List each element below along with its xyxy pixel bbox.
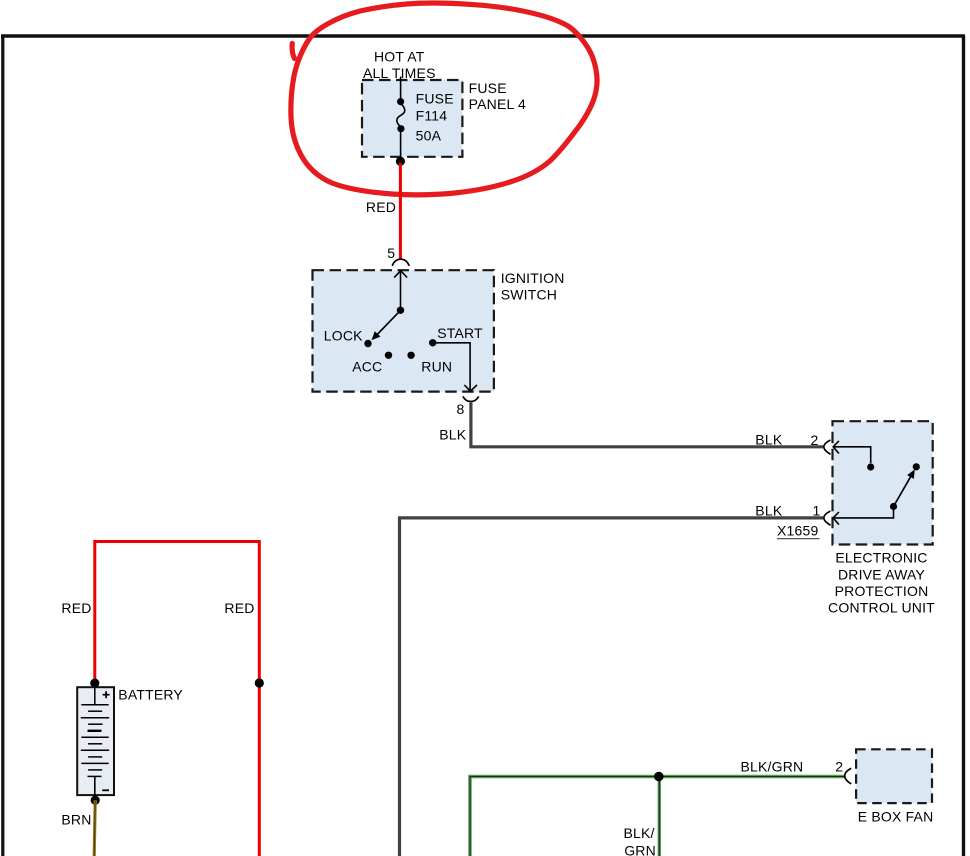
label FUSE PANEL 4 bbox=[469, 80, 526, 112]
LOCK contact dot bbox=[364, 340, 371, 347]
battery plus sign bbox=[103, 691, 110, 698]
wire BLK from lower-left down-run to control unit pin 1 bbox=[400, 518, 824, 856]
svg-text:SWITCH: SWITCH bbox=[501, 286, 557, 302]
junction dot at fuse box bottom bbox=[396, 157, 405, 166]
svg-text:PANEL 4: PANEL 4 bbox=[469, 96, 526, 112]
svg-text:ALL TIMES: ALL TIMES bbox=[363, 65, 436, 81]
control unit pin 1 internal line with left arrow bbox=[833, 510, 894, 525]
svg-text:START: START bbox=[437, 325, 483, 341]
page border frame right line bbox=[962, 36, 965, 856]
pin 1 label (control unit) bbox=[813, 503, 821, 519]
pin 2 connector arc bbox=[824, 440, 831, 454]
svg-text:DRIVE AWAY: DRIVE AWAY bbox=[838, 566, 926, 582]
pin 8 connector arc bbox=[463, 396, 479, 401]
wire BRN from battery negative bbox=[94, 800, 95, 856]
battery box bbox=[77, 687, 114, 795]
ACC contact dot bbox=[385, 352, 392, 359]
label BLK (pin 8 wire) bbox=[439, 426, 467, 442]
svg-text:ELECTRONIC: ELECTRONIC bbox=[835, 550, 927, 566]
svg-text:5: 5 bbox=[387, 245, 395, 261]
battery top terminal dot bbox=[90, 679, 99, 688]
fuse element S-curve bbox=[397, 104, 405, 128]
svg-text:BLK: BLK bbox=[755, 431, 783, 447]
svg-text:50A: 50A bbox=[416, 127, 442, 143]
svg-text:2: 2 bbox=[835, 758, 843, 774]
svg-text:FUSE: FUSE bbox=[416, 91, 454, 107]
label ELECTRONIC DRIVE AWAY PROTECTION CONTROL UNIT bbox=[828, 550, 935, 616]
label RUN bbox=[421, 358, 452, 374]
RUN contact dot bbox=[407, 352, 414, 359]
svg-text:BATTERY: BATTERY bbox=[118, 687, 183, 703]
junction dot on right red wire bbox=[255, 678, 264, 687]
svg-text:2: 2 bbox=[811, 432, 819, 448]
pin 5 label bbox=[387, 245, 395, 261]
label E BOX FAN bbox=[858, 809, 934, 825]
label X1659 underlined bbox=[777, 522, 818, 538]
pin 2 label (e box fan) bbox=[835, 758, 843, 774]
ignition switch dashed box bbox=[313, 270, 494, 391]
svg-text:BLK/: BLK/ bbox=[624, 825, 655, 841]
ignition switch pivot dot bbox=[397, 307, 404, 314]
svg-text:BLK: BLK bbox=[755, 502, 783, 518]
fuse symbol stem bottom bbox=[400, 129, 402, 159]
battery bottom terminal dot bbox=[91, 796, 100, 805]
wire RED battery loop (top and verticals) bbox=[95, 542, 259, 856]
control unit switch arm with arrow bbox=[894, 471, 915, 507]
fuse element dot lower bbox=[397, 125, 404, 132]
pin 2 label (control unit) bbox=[811, 432, 819, 448]
label START bbox=[437, 325, 483, 341]
pin 1 connector arc bbox=[824, 511, 831, 525]
svg-text:LOCK: LOCK bbox=[324, 328, 363, 344]
wire RED from fuse to ignition switch pin 5 bbox=[399, 163, 402, 259]
hand-drawn red highlight circle around fuse area bbox=[291, 3, 597, 195]
control unit internal contact dot left bbox=[867, 463, 874, 470]
svg-text:RED: RED bbox=[61, 600, 91, 616]
label RED (fuse wire) bbox=[366, 199, 396, 215]
battery minus sign bbox=[102, 789, 109, 791]
label FUSE F114 50A bbox=[416, 91, 454, 144]
electronic drive away protection control unit dashed box bbox=[833, 421, 933, 544]
wire BLK/GRN horizontal to e box fan bbox=[470, 777, 845, 856]
page border frame top line bbox=[1, 34, 965, 37]
svg-text:BLK: BLK bbox=[439, 426, 467, 442]
label BLK/GRN (horizontal wire) bbox=[741, 758, 804, 774]
control unit internal contact dot upper right bbox=[913, 463, 920, 470]
svg-text:RED: RED bbox=[224, 600, 254, 616]
svg-text:CONTROL UNIT: CONTROL UNIT bbox=[828, 599, 935, 615]
svg-text:BRN: BRN bbox=[61, 811, 91, 827]
svg-text:E BOX FAN: E BOX FAN bbox=[858, 809, 934, 825]
label HOT AT ALL TIMES bbox=[363, 48, 436, 81]
wire BLK/GRN vertical from junction bbox=[658, 777, 661, 856]
label BLK (pin 1 wire) bbox=[755, 502, 783, 518]
svg-text:FUSE: FUSE bbox=[469, 80, 507, 96]
pin 8 label bbox=[457, 401, 465, 417]
label BATTERY bbox=[118, 687, 183, 703]
label RED (battery left) bbox=[61, 600, 91, 616]
svg-text:BLK/GRN: BLK/GRN bbox=[741, 758, 804, 774]
svg-text:F114: F114 bbox=[416, 108, 448, 124]
svg-text:HOT AT: HOT AT bbox=[374, 48, 425, 64]
e box fan dashed box bbox=[856, 749, 932, 803]
control unit pin 2 internal line with left arrow bbox=[833, 441, 871, 463]
pin 5 connector arc bbox=[392, 259, 409, 266]
fuse panel 4 dashed box bbox=[362, 80, 462, 157]
svg-text:RUN: RUN bbox=[421, 358, 452, 374]
fuse element dot upper bbox=[397, 98, 404, 105]
svg-text:X1659: X1659 bbox=[777, 522, 818, 538]
svg-text:IGNITION: IGNITION bbox=[501, 270, 565, 286]
wire BLK from pin 8 to control unit pin 2 bbox=[471, 403, 823, 447]
ignition switch input line with up arrow bbox=[394, 271, 407, 311]
svg-text:PROTECTION: PROTECTION bbox=[835, 583, 929, 599]
label ACC bbox=[352, 358, 382, 374]
START contact dot bbox=[429, 339, 436, 346]
label BLK (pin 2 wire) bbox=[755, 431, 783, 447]
svg-text:1: 1 bbox=[813, 503, 821, 519]
svg-text:ACC: ACC bbox=[352, 358, 382, 374]
page border frame left line bbox=[1, 36, 4, 856]
battery internal plates bbox=[81, 687, 109, 795]
svg-text:GRN: GRN bbox=[624, 843, 656, 856]
control unit switch pivot dot bbox=[890, 503, 897, 510]
junction dot on BLK/GRN wire bbox=[654, 772, 664, 782]
e box fan pin 2 connector arc bbox=[845, 768, 852, 784]
svg-text:RED: RED bbox=[366, 199, 396, 215]
ignition switch wiper arm to LOCK bbox=[372, 310, 400, 339]
label IGNITION SWITCH bbox=[501, 270, 565, 302]
ignition switch START output line with down arrow bbox=[433, 343, 477, 391]
label BRN bbox=[61, 811, 91, 827]
label LOCK bbox=[324, 328, 363, 344]
label RED (battery right) bbox=[224, 600, 254, 616]
svg-text:8: 8 bbox=[457, 401, 465, 417]
label BLK/ GRN (vertical wire) bbox=[624, 825, 656, 856]
fuse F114 symbol stem top bbox=[400, 77, 402, 102]
